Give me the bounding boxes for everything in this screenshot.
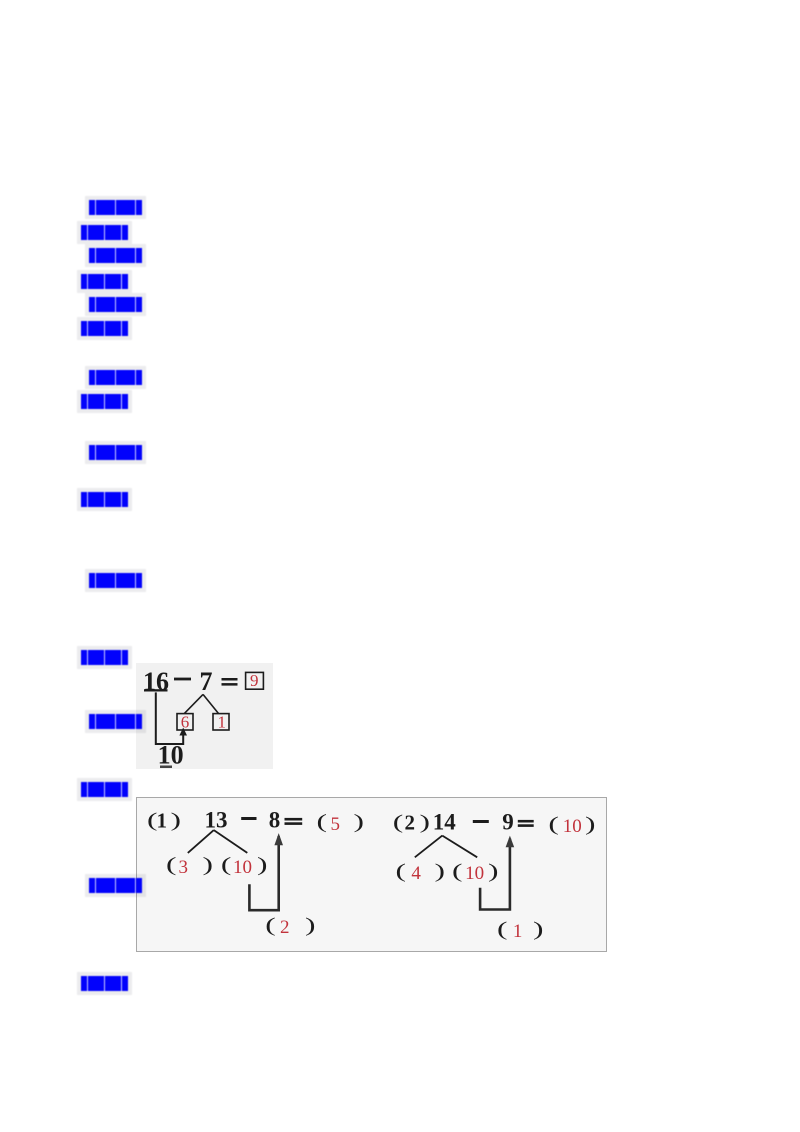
fork from 13 [188, 830, 248, 853]
svg-text:(: ( [497, 918, 508, 940]
figure: 16-7=9 decomposition diagram [136, 663, 273, 769]
analysis marker 【解析】 line 7 [81, 782, 128, 797]
svg-text:14: 14 [433, 810, 457, 835]
answer marker 【答案】 line 6 [89, 573, 142, 588]
analysis marker 【解析】 line 1 [81, 225, 128, 240]
borrow L-shaped line from 16 to under box 6 [156, 692, 183, 744]
svg-text:): ) [533, 918, 544, 940]
svg-text:5: 5 [331, 814, 341, 835]
answer marker 【答案】 line 1 [89, 200, 142, 215]
svg-text:): ) [488, 860, 499, 882]
answer box with red 9 [246, 672, 264, 689]
svg-text:10: 10 [233, 857, 252, 878]
box with red 1 [213, 714, 229, 730]
analysis marker 【解析】 line 5 [81, 492, 128, 507]
svg-text:): ) [305, 914, 316, 936]
fork lines from 7 [184, 694, 218, 713]
svg-text:1: 1 [157, 809, 168, 833]
svg-text:(: ( [221, 854, 232, 876]
svg-text:1: 1 [513, 921, 523, 942]
svg-text:13: 13 [205, 808, 228, 833]
svg-text:6: 6 [181, 712, 190, 731]
figure: (1) 13-8 and (2) 14-9 decomposition diagrams [136, 797, 607, 952]
equals sign [222, 678, 238, 681]
svg-text:9: 9 [250, 671, 259, 690]
svg-text:(: ( [317, 811, 328, 833]
small crop artifact at bottom edge [160, 766, 172, 769]
answer marker 【答案】 line 5 [89, 445, 142, 460]
fork from 14 [415, 836, 477, 858]
svg-text:10: 10 [563, 816, 582, 837]
analysis marker 【解析】 line 2 [81, 274, 128, 289]
svg-text:2: 2 [280, 917, 290, 938]
analysis marker 【解析】 line 3 [81, 321, 128, 336]
minus sign [174, 678, 191, 681]
svg-text:): ) [585, 813, 596, 835]
svg-text:10: 10 [465, 863, 484, 884]
loop arrow from (10) up to 8 [249, 836, 278, 910]
svg-text:(: ( [396, 860, 407, 882]
answer marker 【答案】 line 4 [89, 370, 142, 385]
answer marker 【答案】 line 3 [89, 297, 142, 312]
answer marker 【答案】 line 8 [89, 878, 142, 893]
svg-text:(: ( [265, 914, 276, 936]
arrow head pointing up into box 6 [179, 728, 187, 736]
svg-text:): ) [171, 809, 182, 831]
loop arrow from (10) up to 9 [480, 839, 510, 910]
svg-text:2: 2 [405, 811, 416, 835]
svg-text:): ) [257, 854, 268, 876]
svg-text:(: ( [452, 860, 463, 882]
svg-text:): ) [435, 860, 446, 882]
svg-text:10: 10 [158, 741, 184, 769]
analysis marker 【解析】 line 6 [81, 650, 128, 665]
analysis marker 【解析】 line 8 [81, 976, 128, 991]
svg-text:): ) [354, 811, 365, 833]
svg-text:9: 9 [502, 810, 514, 835]
svg-text:(: ( [393, 811, 404, 833]
svg-text:16: 16 [143, 667, 169, 696]
svg-text:4: 4 [411, 863, 421, 884]
svg-text:3: 3 [179, 857, 189, 878]
svg-text:1: 1 [218, 712, 227, 731]
box with red 6 [177, 714, 193, 730]
svg-text:(: ( [166, 854, 177, 876]
answer marker 【答案】 line 7 [89, 714, 142, 729]
svg-text:8: 8 [269, 808, 281, 833]
svg-text:): ) [203, 854, 214, 876]
svg-text:): ) [420, 811, 431, 833]
svg-text:7: 7 [200, 667, 213, 696]
svg-text:(: ( [548, 813, 559, 835]
answer marker 【答案】 line 2 [89, 248, 142, 263]
analysis marker 【解析】 line 4 [81, 394, 128, 409]
